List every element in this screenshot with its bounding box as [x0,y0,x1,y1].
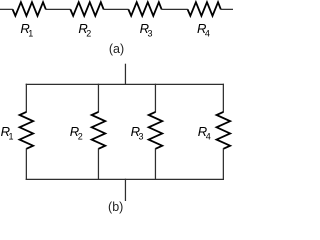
wire (branch 3, upper segment) [154,84,156,113]
resistor R3 (series) [128,2,161,16]
wire (series circuit, right lead) [221,8,233,10]
wire (series, between R1 and R2) [46,8,71,10]
svg-text:R2: R2 [70,124,83,141]
wire (parallel circuit, bottom bus) [26,178,224,180]
value label R4 (parallel) [198,124,211,141]
svg-text:R2: R2 [78,21,91,39]
svg-text:R4: R4 [198,124,211,141]
resistor R4 (series) [188,2,221,16]
wire (branch 3, lower segment) [154,148,156,180]
resistor R1 (series) [13,2,46,16]
value label R1 (parallel) [1,124,14,141]
svg-text:R3: R3 [131,124,144,141]
svg-text:R3: R3 [140,21,153,39]
caption (b) [108,200,123,214]
resistor R1 (parallel) [20,112,34,149]
wire (parallel circuit, top bus) [26,83,224,85]
node bottom (parallel circuit output stub) [124,179,126,201]
svg-text:R4: R4 [197,21,210,39]
value label R2 (series) [78,21,91,39]
resistor R3 (parallel) [149,112,163,149]
resistor R4 (parallel) [217,112,231,149]
wire (series, between R2 and R3) [103,8,128,10]
svg-text:R1: R1 [1,124,14,141]
wire (left branch, lower segment) [25,148,27,180]
value label R3 (parallel) [131,124,144,141]
wire (series, between R3 and R4) [161,8,187,10]
node top (parallel circuit input stub) [124,64,126,85]
wire (branch 2, lower segment) [97,148,99,180]
value label R4 (series) [197,21,210,39]
resistor R2 (series) [70,2,103,16]
wire (left branch, upper segment) [25,84,27,113]
value label R3 (series) [140,21,153,39]
caption (a) [109,42,124,56]
wire (branch 2, upper segment) [97,84,99,113]
svg-text:R1: R1 [20,21,33,39]
value label R1 (series) [20,21,33,39]
value label R2 (parallel) [70,124,83,141]
wire (series circuit, left lead) [0,8,13,10]
wire (right branch, lower segment) [222,148,224,180]
wire (right branch, upper segment) [222,84,224,113]
svg-text:(b): (b) [108,200,123,214]
resistor R2 (parallel) [92,112,106,149]
svg-text:(a): (a) [109,42,124,56]
